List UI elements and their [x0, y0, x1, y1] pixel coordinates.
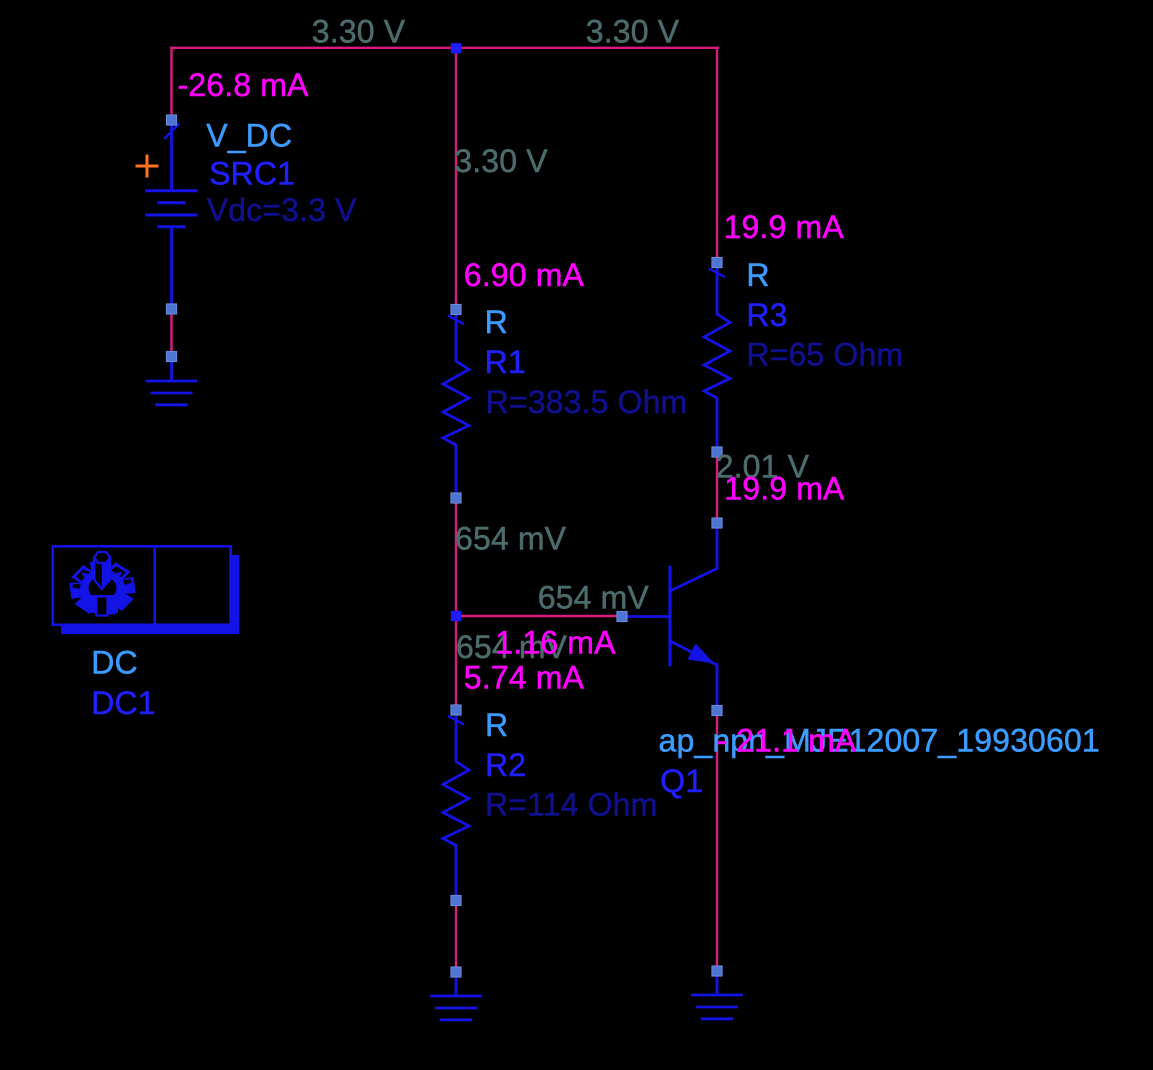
junction node at base wire	[451, 611, 461, 621]
svg-text:-: -	[717, 723, 728, 759]
pin Q1 emitter	[712, 705, 722, 715]
wire rail to R1	[455, 48, 457, 310]
wire SRC1 minus to ground	[170, 309, 172, 357]
ground under SRC1	[170, 357, 173, 381]
gear icon inside DC controller	[70, 561, 134, 614]
resistor R3	[710, 269, 724, 277]
svg-text:Q1: Q1	[660, 763, 703, 799]
voltage source V_DC SRC1	[170, 120, 173, 190]
pin R3 bottom	[712, 447, 722, 457]
svg-text:19.9 mA: 19.9 mA	[724, 471, 845, 507]
svg-text:R: R	[485, 304, 508, 340]
svg-text:3.30 V: 3.30 V	[454, 143, 548, 179]
DC simulation controller DC1	[61, 555, 239, 634]
junction node on top rail	[451, 43, 461, 53]
svg-text:19.9 mA: 19.9 mA	[724, 209, 845, 245]
wire rail to R3	[716, 48, 718, 263]
ground under Q1 emitter	[716, 971, 719, 995]
hex column of gear icon	[94, 557, 110, 589]
svg-text:R: R	[746, 257, 769, 293]
pin R2 top	[451, 705, 461, 715]
svg-text:R2: R2	[485, 747, 526, 783]
svg-text:V_DC: V_DC	[206, 118, 292, 154]
svg-text:3.30 V: 3.30 V	[586, 14, 680, 50]
svg-text:-26.8 mA: -26.8 mA	[178, 67, 310, 103]
wire R3 to Q1 collector	[716, 453, 718, 524]
pin R1 bottom	[451, 493, 461, 503]
svg-text:654 mV: 654 mV	[455, 521, 567, 557]
resistor R2	[449, 717, 463, 725]
pin R2 bottom	[451, 895, 461, 905]
svg-text:R=65 Ohm: R=65 Ohm	[746, 337, 903, 373]
keyway notch of gear icon	[96, 597, 107, 616]
pin R1 top	[451, 304, 461, 314]
pin ground G3	[712, 966, 722, 976]
transistor Q1 npn	[716, 523, 719, 569]
svg-text:R=383.5 Ohm: R=383.5 Ohm	[486, 384, 688, 420]
svg-text:SRC1: SRC1	[209, 156, 295, 192]
svg-text:Vdc=3.3 V: Vdc=3.3 V	[207, 192, 357, 228]
wire SRC1 top drop	[170, 48, 172, 120]
wire Q1 emitter to ground	[716, 711, 718, 972]
pin ground G2	[451, 967, 461, 977]
pin Q1 collector	[712, 518, 722, 528]
wire top rail VCC net	[172, 47, 719, 49]
svg-text:6.90 mA: 6.90 mA	[464, 257, 585, 293]
pin SRC1 +	[166, 115, 176, 125]
svg-text:DC1: DC1	[91, 685, 155, 721]
svg-text:R: R	[485, 707, 508, 743]
svg-text:3.30 V: 3.30 V	[312, 14, 406, 50]
pin ground G1	[166, 351, 176, 361]
resistor R1	[449, 316, 463, 324]
wire R1 to base node	[455, 498, 457, 616]
svg-text:654 mV: 654 mV	[538, 580, 650, 616]
svg-text:1.16 mA: 1.16 mA	[495, 625, 616, 661]
svg-text:R1: R1	[485, 344, 526, 380]
pin Q1 base	[617, 611, 627, 621]
plus sign of SRC1	[137, 165, 157, 168]
wire base node to Q1 base	[456, 615, 622, 617]
svg-text:R3: R3	[746, 297, 787, 333]
svg-text:R=114 Ohm: R=114 Ohm	[485, 787, 657, 823]
wire R2 to ground	[455, 901, 457, 973]
wire base node to R2	[455, 616, 457, 710]
pin SRC1 -	[166, 304, 176, 314]
ground under R2	[455, 972, 458, 996]
svg-text:5.74 mA: 5.74 mA	[464, 660, 585, 696]
pin R3 top	[712, 257, 722, 267]
svg-text:21.1 mA: 21.1 mA	[736, 723, 857, 759]
svg-text:DC: DC	[91, 645, 138, 681]
